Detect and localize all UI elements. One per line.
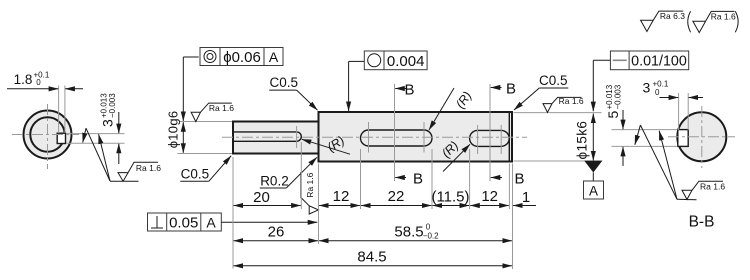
perpendicularity leader [221, 221, 317, 223]
extension lines keyway width 5 [612, 129, 678, 131]
section arrow B2 bottom [491, 171, 525, 188]
datum triangle [584, 161, 602, 173]
perpendicularity frame [148, 213, 222, 232]
shaft centerline [222, 136, 527, 138]
roughness Ra1.6 B-B with leaders [635, 125, 725, 200]
dimension 3 +0.013/-0.003 vertical [100, 93, 119, 164]
rotated roughness Ra1.6 at step [301, 172, 319, 214]
small diameter section phi10g6 [233, 122, 319, 154]
svg-text:B: B [413, 171, 423, 188]
svg-text:R0.2: R0.2 [260, 174, 289, 189]
extension line small bottom left [178, 153, 233, 155]
svg-text:Ra 6.3: Ra 6.3 [660, 11, 685, 21]
svg-text:26: 26 [268, 224, 285, 241]
svg-text:1.8: 1.8 [14, 72, 33, 87]
svg-text:20: 20 [253, 189, 270, 206]
svg-text:B: B [515, 171, 525, 188]
large diameter section phi15k6 [319, 112, 513, 162]
section line B1 [394, 84, 396, 181]
circularity frame [364, 51, 427, 70]
keyway notch B-B [678, 130, 688, 147]
svg-text:ϕ0.06: ϕ0.06 [223, 49, 261, 66]
dimension 1 [513, 189, 536, 206]
extension line big top right [514, 112, 602, 114]
svg-text:0: 0 [655, 88, 660, 97]
svg-text:12: 12 [333, 188, 350, 205]
dimension 84.5 [234, 249, 512, 266]
straightness frame [610, 51, 688, 70]
svg-text:12: 12 [481, 188, 498, 205]
svg-text:−0.2: −0.2 [423, 232, 439, 241]
svg-text:A: A [206, 215, 216, 231]
Ra 1.6 symbol in parens [693, 11, 735, 32]
svg-text:Ra 1.6: Ra 1.6 [209, 103, 234, 113]
svg-text:B: B [405, 82, 415, 99]
inner circle phi10 [30, 117, 64, 151]
extension line small top left [179, 121, 232, 123]
dimension 12 first [319, 188, 360, 206]
svg-text:C0.5: C0.5 [270, 75, 299, 90]
Ra 6.3 symbol [641, 11, 684, 31]
svg-text:−0.003: −0.003 [108, 93, 117, 118]
arc center ticks slot 1 [368, 122, 370, 153]
extension lines keyway depth 3 [678, 93, 680, 130]
svg-text:ϕ10g6: ϕ10g6 [166, 111, 181, 149]
svg-text:58.5: 58.5 [394, 224, 423, 241]
keyway notch left view [57, 133, 65, 143]
section arrow B1 bottom [395, 171, 423, 188]
circularity frame leader [349, 60, 365, 62]
datum box A [584, 181, 604, 199]
svg-text:C0.5: C0.5 [539, 73, 568, 88]
dimension (11.5) [431, 189, 469, 206]
svg-text:0.01/100: 0.01/100 [631, 53, 687, 69]
radius label (R) 2 [429, 88, 475, 130]
svg-text:0.004: 0.004 [387, 53, 425, 70]
svg-text:Ra 1.6: Ra 1.6 [711, 11, 736, 21]
dimension 5 +0.013/-0.003 vertical [605, 84, 623, 166]
extension line big bottom right [514, 160, 602, 162]
roughness Ra1.6 on big section right [543, 96, 584, 113]
svg-text:B: B [506, 81, 516, 98]
extension lines keyway depth 1.8 [58, 86, 60, 134]
dimension 3 +0.1/0 [643, 80, 704, 98]
keyway slot 1 [361, 130, 433, 146]
circle phi15 section [677, 112, 726, 161]
svg-text:Ra 1.6: Ra 1.6 [305, 172, 315, 197]
svg-text:1: 1 [522, 189, 530, 206]
centerline horizontal B-B [668, 136, 735, 138]
svg-text:0: 0 [36, 78, 41, 87]
chamfer label C0.5 bottom left [180, 156, 231, 182]
roughness Ra1.6 on small section top [191, 103, 234, 122]
arc center ticks slot 2 [477, 125, 479, 154]
dimension 26 [234, 224, 318, 241]
general roughness note top right [641, 11, 739, 33]
right end chamfer line [508, 113, 510, 161]
svg-text:22: 22 [388, 188, 405, 205]
section line B2 [489, 84, 491, 181]
svg-text:3: 3 [643, 80, 651, 96]
diameter dim phi15k6 with datum [575, 114, 604, 199]
dimension 12 second [470, 188, 509, 206]
centerline vertical B-B [701, 106, 703, 168]
svg-text:Ra 1.6: Ra 1.6 [700, 181, 725, 191]
keyway small section [233, 132, 301, 141]
concentricity frame leader [183, 56, 198, 58]
dimension 58.5 0/-0.2 [319, 223, 512, 241]
shaft front view [148, 48, 689, 270]
svg-text:Ra 1.6: Ra 1.6 [136, 163, 161, 173]
svg-text:0.05: 0.05 [169, 215, 198, 232]
keyway slot 2 [470, 130, 510, 146]
radius label (R) 3 [439, 138, 470, 171]
dimension 1.8 +0.1/0 [7, 71, 83, 89]
svg-text:A: A [269, 49, 279, 65]
chamfer label C0.5 top right [514, 73, 568, 110]
svg-text:Ra 1.6: Ra 1.6 [559, 96, 584, 106]
svg-text:(11.5): (11.5) [431, 189, 469, 206]
dimension 20 [234, 189, 301, 206]
extension lines keyway width 3 [66, 133, 125, 135]
step line [318, 112, 320, 162]
fillet label R0.2 [260, 157, 317, 188]
section arrow B2 top [491, 81, 516, 98]
section view B-B [605, 80, 735, 231]
svg-text:ϕ15k6: ϕ15k6 [575, 121, 590, 160]
straightness frame leader [593, 59, 610, 61]
section arrow B1 top [395, 82, 414, 99]
chamfer label C0.5 top middle [269, 75, 317, 110]
outer circle phi15 [24, 111, 72, 159]
roughness Ra1.6 left view with leaders [83, 128, 162, 181]
extension lines below shaft [232, 157, 234, 269]
svg-text:84.5: 84.5 [357, 249, 386, 266]
svg-text:0: 0 [426, 223, 431, 232]
radius label (R) 1 [302, 133, 350, 154]
dimension 22 [361, 188, 431, 206]
parentheses [688, 11, 691, 32]
diameter dim phi10g6 [166, 111, 184, 153]
arc center tick small keyway [296, 126, 298, 148]
svg-text:−0.003: −0.003 [614, 84, 623, 109]
concentricity frame [200, 48, 283, 67]
svg-text:B-B: B-B [689, 214, 715, 231]
left end view [7, 71, 161, 182]
svg-text:3: 3 [100, 119, 116, 127]
svg-text:C0.5: C0.5 [181, 167, 210, 182]
centerline vertical left view [47, 104, 49, 169]
svg-text:5: 5 [605, 111, 621, 119]
svg-text:A: A [589, 184, 598, 199]
centerline horizontal left view [12, 134, 79, 136]
